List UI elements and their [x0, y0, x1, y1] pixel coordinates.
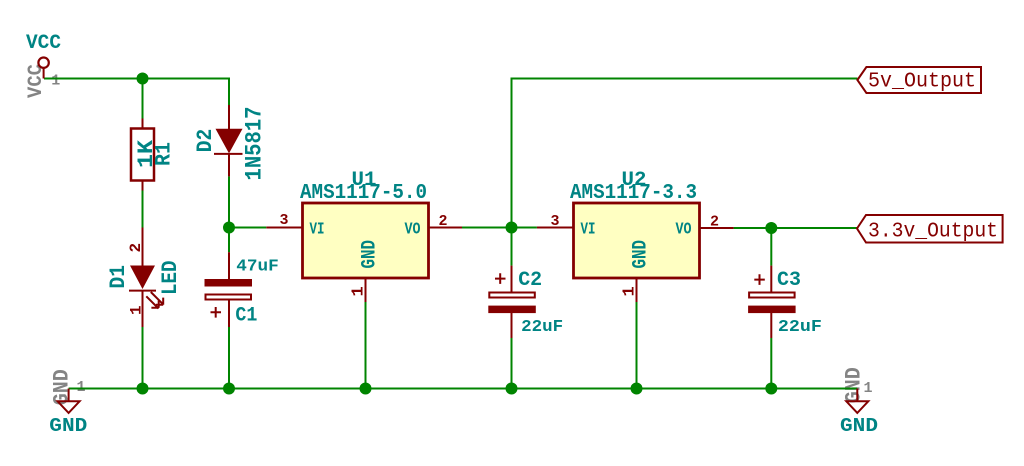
svg-text:C1: C1 — [235, 305, 257, 328]
svg-text:C2: C2 — [518, 269, 542, 292]
svg-text:VI: VI — [310, 220, 325, 239]
svg-text:GND: GND — [840, 415, 878, 437]
svg-text:1N5817: 1N5817 — [242, 107, 268, 181]
svg-text:D2: D2 — [193, 129, 218, 153]
svg-text:VO: VO — [676, 220, 692, 239]
svg-text:D1: D1 — [106, 265, 131, 289]
svg-text:1: 1 — [350, 286, 369, 296]
svg-text:1: 1 — [128, 305, 146, 315]
svg-text:1: 1 — [51, 73, 60, 90]
svg-text:22uF: 22uF — [521, 318, 563, 337]
svg-text:2: 2 — [710, 214, 719, 231]
svg-text:47uF: 47uF — [236, 257, 278, 276]
svg-text:1: 1 — [864, 380, 873, 397]
svg-text:GND: GND — [49, 415, 87, 437]
svg-text:VO: VO — [405, 220, 421, 239]
svg-text:2: 2 — [127, 243, 145, 253]
svg-text:1: 1 — [621, 286, 640, 296]
svg-text:GND: GND — [359, 240, 382, 269]
svg-text:GND: GND — [50, 369, 75, 405]
svg-text:R1: R1 — [152, 142, 177, 166]
svg-text:LED: LED — [158, 261, 183, 296]
svg-text:22uF: 22uF — [778, 318, 822, 337]
svg-text:3: 3 — [280, 212, 289, 229]
svg-text:C3: C3 — [777, 269, 801, 292]
svg-text:3.3v_Output: 3.3v_Output — [868, 220, 998, 243]
svg-text:VCC: VCC — [26, 32, 61, 55]
svg-text:AMS1117-3.3: AMS1117-3.3 — [570, 182, 697, 205]
svg-text:2: 2 — [439, 213, 448, 230]
svg-text:GND: GND — [630, 240, 653, 269]
svg-text:AMS1117-5.0: AMS1117-5.0 — [300, 182, 427, 205]
svg-text:5v_Output: 5v_Output — [868, 71, 976, 94]
svg-text:VI: VI — [581, 220, 596, 239]
svg-text:3: 3 — [551, 213, 560, 230]
